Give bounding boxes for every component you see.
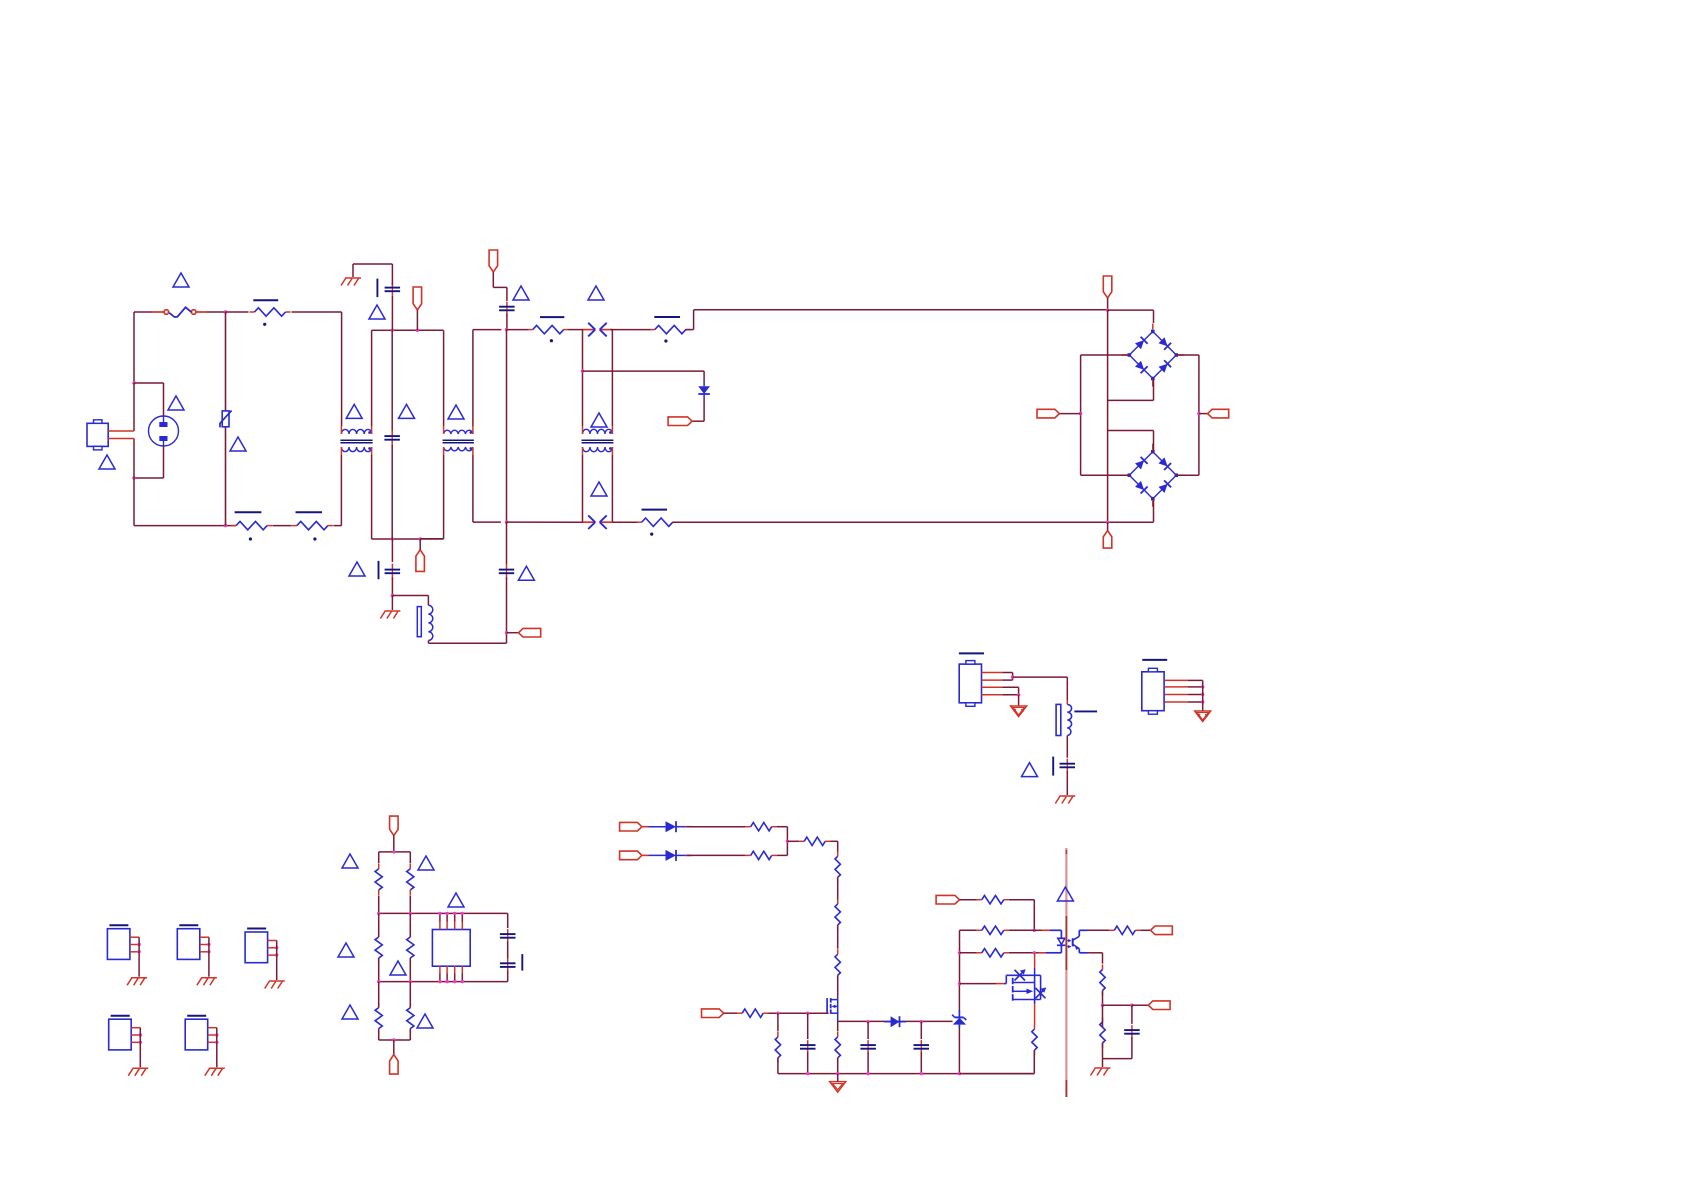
- capacitor C7: [500, 958, 516, 972]
- diode D1: [698, 381, 710, 399]
- bm left drop3b: [378, 1029, 380, 1040]
- R21 to rail: [837, 1058, 839, 1074]
- polarity bar CY1: [376, 279, 378, 298]
- pin J1.4: [982, 694, 1003, 696]
- MOSFET Q1: [827, 997, 838, 1022]
- triangle W7: [399, 404, 415, 418]
- wire choke2 SW down: [420, 455, 443, 539]
- junction bridge top: [1106, 308, 1109, 311]
- pin J6.3: [131, 1041, 140, 1043]
- junction bridge bottom: [1106, 521, 1109, 524]
- wire CX1 down: [506, 314, 508, 330]
- capacitor C6: [500, 929, 516, 943]
- zener rail up: [958, 984, 960, 1010]
- wire cap to earth: [1066, 771, 1068, 795]
- wire P14 stub: [724, 1012, 738, 1014]
- earth ground G7: [197, 978, 217, 986]
- wire R18 to Q1: [837, 975, 839, 997]
- junction U1 bottom 6: [445, 980, 448, 983]
- bm bus4: [379, 1039, 411, 1041]
- junction emitter div: [1101, 1004, 1104, 1007]
- connector J5: [245, 932, 268, 963]
- port P11: [390, 1055, 399, 1075]
- pin U1 top 1: [439, 913, 441, 921]
- div bottom wire: [1103, 1058, 1132, 1060]
- X rail 1 lower: [391, 445, 393, 539]
- wire R2-R3: [272, 525, 291, 527]
- wire left rail pin2 to bottom: [133, 439, 135, 526]
- junction bus3 a: [377, 980, 380, 983]
- wire Ycap2 to junction: [391, 578, 393, 596]
- dot R5: [664, 339, 667, 342]
- junction row2: [1033, 929, 1036, 932]
- wire to bridge1: [1108, 310, 1154, 323]
- junction U1 bottom 7: [453, 980, 456, 983]
- wire Q2 drain: [1034, 953, 1036, 968]
- resistor R26: [1100, 965, 1105, 996]
- stub port P4: [507, 632, 519, 634]
- C8 drop: [807, 1013, 809, 1039]
- wire AC line top: [134, 311, 152, 313]
- wire xfmr bottom: [428, 641, 506, 644]
- port P10: [390, 816, 399, 836]
- junction bottom rail: [866, 1072, 869, 1075]
- wire junction to R15: [787, 840, 799, 842]
- bm right drop3b: [409, 1029, 411, 1040]
- wire Ycap2 down: [391, 539, 393, 562]
- IC U1: [432, 930, 470, 967]
- earth ground G10: [205, 1068, 225, 1076]
- triangle W21: [342, 1005, 358, 1019]
- bus2 a: [507, 521, 583, 523]
- resistor R14: [746, 851, 777, 859]
- connector J3: [107, 929, 129, 960]
- bm cap rail bottom: [507, 971, 509, 982]
- pin U1 bottom 5: [439, 966, 441, 974]
- junction C11: [1130, 1004, 1133, 1007]
- junction J7 b: [215, 1041, 218, 1044]
- bm bus2: [379, 912, 508, 914]
- resistor R9: [375, 932, 382, 963]
- capacitor CY3: [499, 564, 514, 580]
- connector J4: [177, 929, 200, 960]
- stub P8: [1199, 413, 1208, 415]
- junction C10: [920, 1020, 923, 1023]
- junction J1 upper: [1011, 675, 1014, 678]
- triangle W17: [418, 856, 434, 870]
- junction U1 bottom 8: [461, 980, 464, 983]
- label bar R2: [235, 511, 262, 513]
- wire R19 to gate: [768, 1012, 828, 1014]
- wire D3-R14: [687, 854, 746, 856]
- wire diode branch: [583, 371, 705, 381]
- junction port P7: [1079, 412, 1082, 415]
- triangle W8: [448, 405, 464, 419]
- polarity bar CY2: [378, 561, 380, 579]
- pin Q2 gate: [996, 983, 1004, 985]
- C11 rail: [1131, 1005, 1133, 1024]
- row2 left: [960, 929, 977, 931]
- junction bus2 a: [377, 912, 380, 915]
- optocoupler U2: [1039, 930, 1088, 953]
- varistor RV1: [220, 312, 232, 526]
- R22 corner: [1009, 900, 1035, 931]
- C10 to rail: [920, 1052, 922, 1073]
- connector J2: [1142, 668, 1164, 714]
- bridge1 left arm: [1081, 355, 1130, 414]
- source node wire: [838, 1020, 953, 1022]
- resistor R6: [637, 518, 678, 526]
- row3 right: [1009, 952, 1039, 954]
- dot R2: [249, 537, 252, 540]
- wire R1 to corner: [292, 312, 342, 426]
- wire choke2 SE down: [473, 455, 501, 522]
- junction port B stub: [419, 537, 422, 540]
- wire choke2 NE up: [473, 330, 502, 426]
- wire junction to earth: [391, 596, 393, 611]
- junction varistor bottom: [224, 524, 227, 527]
- bm right drop2: [409, 913, 411, 937]
- junction gate2: [958, 982, 961, 985]
- power ground G11: [830, 1082, 846, 1093]
- bottom long wire: [672, 521, 1107, 523]
- wire choke2 NW up: [443, 330, 445, 426]
- junction J6 a: [139, 1033, 142, 1036]
- div node wire: [1103, 1004, 1132, 1006]
- wire left rail to AC pin1: [133, 383, 135, 431]
- bm right drop1b: [409, 895, 411, 913]
- resistor R11: [375, 1003, 382, 1034]
- bus1 c: [610, 329, 612, 331]
- pin J7.3: [208, 1041, 217, 1043]
- triangle W20: [448, 893, 464, 907]
- pin U1 bottom 6: [446, 966, 448, 974]
- pin J2.4: [1165, 701, 1188, 703]
- port P13: [620, 851, 642, 860]
- wire port P1 stub: [416, 310, 418, 330]
- junction port stub: [416, 329, 419, 332]
- bm right drop2b: [409, 958, 411, 982]
- bridge2 top arm: [1108, 431, 1154, 453]
- chassis ground G3: [1011, 706, 1027, 717]
- junction U1 bottom 5: [438, 980, 441, 983]
- bm left drop2b: [378, 958, 380, 982]
- earth ground G1: [341, 278, 361, 286]
- earth ground G4: [1055, 796, 1075, 804]
- earth ground G6: [127, 978, 147, 986]
- R21 drop: [837, 1022, 839, 1032]
- pin J1.3: [982, 686, 1003, 688]
- capacitor CX0: [384, 430, 400, 446]
- port P16: [1151, 926, 1173, 935]
- bm bus3: [379, 981, 508, 983]
- pin J1.1: [982, 672, 1003, 674]
- junction J3 b: [137, 950, 140, 953]
- wire R17-R18: [837, 925, 839, 949]
- pin J3.1: [130, 936, 139, 938]
- label bar R4: [540, 316, 564, 318]
- resistor R20: [775, 1032, 780, 1063]
- wire Ycap1 up: [391, 296, 393, 330]
- bridge1 bottom arm: [1108, 379, 1154, 401]
- bm left drop2: [378, 913, 380, 937]
- chassis ground G5: [1195, 711, 1211, 722]
- junction J3 a: [137, 943, 140, 946]
- bm right drop3: [409, 982, 411, 1008]
- junction J2 pin: [1201, 700, 1204, 703]
- label bar J5: [247, 928, 266, 930]
- wire R14 corner: [777, 841, 788, 855]
- port P6: [1103, 276, 1112, 298]
- zener rail down: [958, 1028, 960, 1074]
- junction Ycap2 top: [391, 537, 394, 540]
- pin U1 top 2: [446, 913, 448, 921]
- resistor R1: [250, 308, 291, 316]
- wire to R1: [226, 311, 249, 313]
- H right rail lower: [1176, 414, 1199, 476]
- junction gate b: [806, 1012, 809, 1015]
- pin J7.2: [208, 1034, 217, 1036]
- R27 wires: [1102, 1005, 1104, 1058]
- wire Q2 source: [1034, 1004, 1036, 1025]
- capacitor CY1: [385, 283, 401, 297]
- R20 drop: [777, 1013, 779, 1031]
- port P14: [702, 1009, 724, 1018]
- resistor R19: [737, 1009, 768, 1017]
- junction bm top: [392, 850, 395, 853]
- resistor R5: [650, 325, 691, 333]
- capacitor C10: [914, 1040, 930, 1054]
- junction CX1 bus: [505, 328, 508, 331]
- wire choke1 NE up: [372, 330, 388, 426]
- wire Ycap1 to gnd arm: [353, 264, 392, 285]
- MOSFET pair Q2: [1004, 969, 1046, 1003]
- bridge1 right arm: [1176, 355, 1199, 414]
- connector J7: [185, 1019, 208, 1050]
- rail 959 upper: [959, 930, 961, 983]
- diode D2: [643, 821, 692, 832]
- capacitor C8: [800, 1040, 816, 1054]
- resistor R22: [977, 896, 1009, 904]
- dot R1: [263, 323, 266, 326]
- pin U1 top 3: [454, 913, 456, 921]
- junction U1 top 3: [453, 912, 456, 915]
- junction varistor top: [224, 310, 227, 313]
- diode D3: [643, 850, 692, 861]
- gate2 wire: [960, 983, 997, 985]
- junction bottom rail: [806, 1072, 809, 1075]
- triangle W10: [588, 286, 604, 300]
- X rail: [506, 330, 508, 522]
- wire J1 gnd stub: [1018, 695, 1020, 706]
- spark gap GT1-bot: [583, 515, 613, 529]
- dot R6: [650, 533, 653, 536]
- pin J3.3: [130, 951, 139, 953]
- junction C9: [866, 1020, 869, 1023]
- wire choke1 SE down: [372, 455, 444, 539]
- bus1 a: [507, 329, 529, 331]
- stub P10: [393, 836, 395, 852]
- X rail 1 upper: [391, 330, 393, 431]
- junction J2 pin: [1201, 685, 1204, 688]
- row3 left: [960, 952, 977, 954]
- wire P2 stub: [493, 272, 507, 301]
- stub port P5: [419, 539, 421, 550]
- wire R15 corner: [830, 841, 838, 851]
- bm left drop1b: [378, 895, 380, 913]
- port P4: [519, 628, 541, 637]
- junction row3 right: [1033, 951, 1036, 954]
- inductor L4: [1056, 704, 1097, 735]
- wire lamp top arm: [134, 383, 164, 416]
- triangle W9: [513, 286, 529, 300]
- label bar J2: [1142, 659, 1167, 661]
- junction diode branch: [581, 369, 584, 372]
- label bar R6: [642, 509, 668, 511]
- wire J5 gnd rail: [276, 941, 278, 981]
- pin J4.2: [200, 944, 209, 946]
- wire P15 stub: [960, 899, 977, 901]
- triangle W11: [591, 413, 607, 427]
- wire J6 gnd rail: [139, 1028, 141, 1068]
- junction port P4: [505, 631, 508, 634]
- triangle W1: [173, 273, 189, 287]
- junction Ycap2 bottom: [391, 594, 394, 597]
- junction J2 pin: [1201, 693, 1204, 696]
- pin J2.1: [1165, 679, 1188, 681]
- wire left rail upper: [133, 312, 135, 383]
- wire R5 up to long wire: [685, 310, 1107, 330]
- resistor R4: [528, 325, 569, 333]
- R26 to junction: [1102, 991, 1104, 1006]
- junction J6 b: [139, 1041, 142, 1044]
- port P17: [1148, 1001, 1170, 1010]
- stub P11: [393, 1040, 395, 1055]
- bridge2 bottom arm: [1108, 499, 1154, 523]
- dot R4: [550, 339, 553, 342]
- bm left drop1: [378, 852, 380, 864]
- bm right drop1: [409, 852, 411, 864]
- junction J4 a: [207, 943, 210, 946]
- capacitor CX1: [499, 302, 514, 316]
- common-mode choke L3: [582, 426, 614, 455]
- junction bottom rail: [958, 1072, 961, 1075]
- junction X rail bottom: [505, 520, 508, 523]
- connector J1: [959, 661, 981, 707]
- R20 to rail: [777, 1058, 779, 1074]
- wire D2-R13: [687, 826, 746, 828]
- resistor R27: [1100, 1017, 1105, 1048]
- pin J2.3: [1165, 694, 1188, 696]
- label bar R3: [296, 511, 323, 513]
- pin U1 bottom 7: [454, 966, 456, 974]
- resistor R15: [799, 837, 830, 845]
- port P5: [416, 550, 425, 572]
- resistor R12: [407, 1003, 414, 1034]
- triangle W12: [591, 482, 607, 496]
- AC inlet connector J0: [87, 420, 134, 450]
- resistor R21: [835, 1032, 840, 1063]
- wire junction to xfmr: [392, 596, 428, 606]
- junction bus2 b: [409, 912, 412, 915]
- junction bm bottom: [392, 1038, 395, 1041]
- bridge rectifier BR1: [1121, 324, 1184, 387]
- stub P7: [1059, 413, 1080, 415]
- C11 down: [1131, 1037, 1133, 1058]
- triangle W16: [342, 854, 358, 868]
- wire J4 gnd rail: [208, 937, 210, 977]
- junction J1 lower: [1017, 693, 1020, 696]
- port P12: [620, 822, 642, 831]
- junction lamp top: [132, 381, 135, 384]
- pin J5.1: [268, 940, 277, 942]
- bm left drop3: [378, 982, 380, 1008]
- triangle W15: [1022, 763, 1038, 777]
- R28 to rail: [959, 1050, 1034, 1074]
- wire R3 to choke1: [333, 455, 341, 526]
- wire R16-R17: [837, 877, 839, 903]
- junction row3 left: [958, 951, 961, 954]
- C9 drop: [867, 1022, 869, 1039]
- rail choke3 left bottom: [582, 455, 584, 522]
- triangle W2: [168, 396, 184, 410]
- common-mode choke L1: [340, 426, 372, 455]
- junction U1 top 1: [438, 912, 441, 915]
- resistor R7: [375, 864, 382, 895]
- resistor R18: [835, 949, 840, 980]
- C8 to rail: [807, 1052, 809, 1073]
- stub P9: [1107, 522, 1109, 530]
- rail choke3 right bottom: [611, 455, 613, 522]
- wire R13 corner: [777, 827, 788, 842]
- resistor R23: [977, 926, 1009, 934]
- port P8: [1208, 409, 1229, 418]
- triangle W23: [1057, 887, 1073, 901]
- triangle W4: [230, 437, 246, 451]
- bridge rectifier BR2: [1121, 444, 1184, 507]
- triangle W22: [417, 1014, 433, 1028]
- pin J6.2: [131, 1034, 140, 1036]
- junction bottom rail: [920, 1072, 923, 1075]
- H left rail lower: [1081, 414, 1130, 476]
- junction J5 a: [275, 946, 278, 949]
- pin J7.1: [208, 1027, 217, 1029]
- opto collector wire: [1088, 929, 1110, 931]
- label bar J1: [959, 652, 984, 654]
- capacitor CY2: [385, 564, 401, 580]
- junction Ycap1: [391, 329, 394, 332]
- junction U1 top 2: [445, 912, 448, 915]
- R25 to port: [1140, 929, 1150, 931]
- port P2: [489, 250, 498, 272]
- resistor R17: [835, 899, 840, 930]
- junction J5 b: [275, 953, 278, 956]
- label bar R5: [654, 316, 680, 318]
- pin J5.2: [268, 947, 277, 949]
- resistor R24: [977, 949, 1009, 957]
- J2 common rail: [1202, 680, 1204, 711]
- polarity bar C7: [521, 954, 523, 971]
- wire J7 gnd rail: [216, 1028, 218, 1068]
- pin J6.1: [131, 1027, 140, 1029]
- triangle W19: [390, 961, 406, 975]
- rail choke3 left top: [582, 330, 584, 426]
- pin J4.3: [200, 951, 209, 953]
- common-mode choke L2: [443, 426, 474, 455]
- triangle W13: [349, 562, 365, 576]
- junction J4 b: [207, 950, 210, 953]
- capacitor C5: [1060, 759, 1076, 773]
